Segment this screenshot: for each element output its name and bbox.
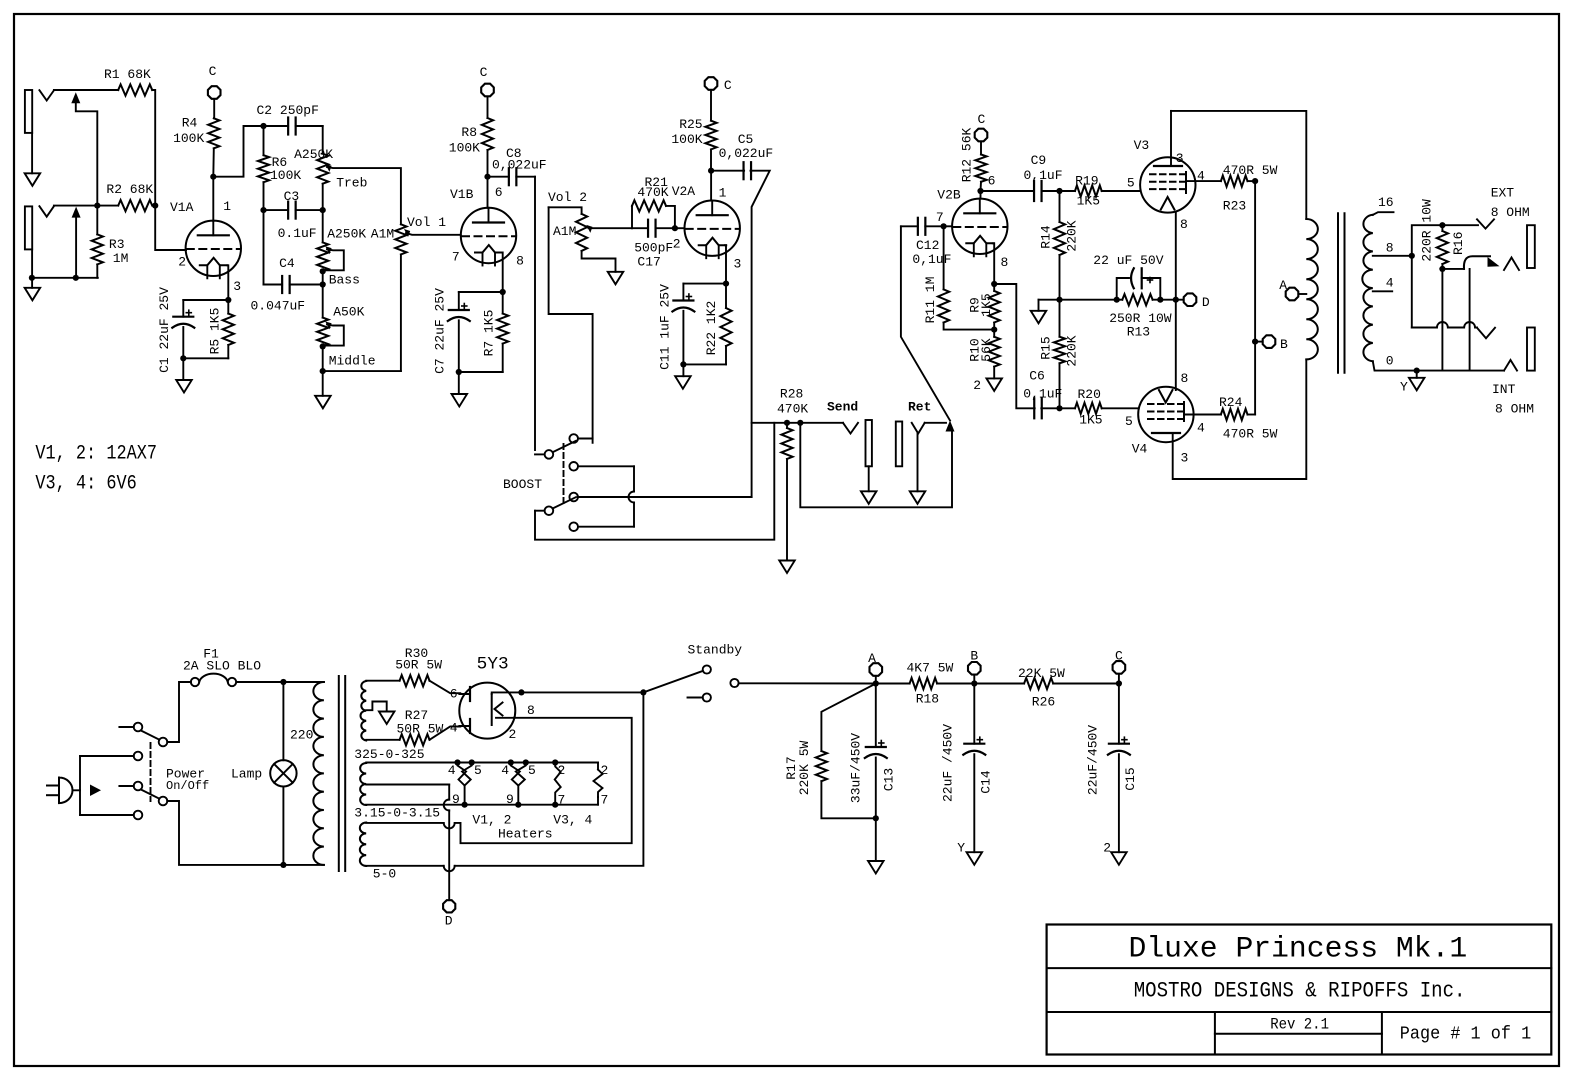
svg-text:8: 8 — [1181, 371, 1189, 386]
svg-text:2: 2 — [509, 727, 517, 742]
svg-text:C13: C13 — [882, 768, 897, 791]
svg-text:5: 5 — [1127, 176, 1135, 191]
svg-text:Heaters: Heaters — [498, 827, 553, 842]
svg-text:INT: INT — [1492, 382, 1516, 397]
svg-text:33uF/450V: 33uF/450V — [849, 733, 864, 803]
svg-text:Dluxe Princess Mk.1: Dluxe Princess Mk.1 — [1129, 933, 1468, 967]
svg-text:Y: Y — [1400, 380, 1408, 395]
svg-text:56K: 56K — [979, 338, 994, 362]
svg-text:470K: 470K — [637, 185, 668, 200]
svg-text:R14: R14 — [1039, 225, 1054, 249]
svg-text:R18: R18 — [916, 692, 939, 707]
svg-text:9: 9 — [506, 792, 514, 807]
svg-text:D: D — [1202, 295, 1210, 310]
svg-text:470R 5W: 470R 5W — [1223, 426, 1278, 441]
svg-text:0,022uF: 0,022uF — [492, 158, 547, 173]
svg-text:100K: 100K — [671, 132, 702, 147]
svg-text:Middle: Middle — [329, 354, 376, 369]
svg-text:C12: C12 — [916, 238, 939, 253]
svg-text:8: 8 — [1180, 217, 1188, 232]
svg-text:8 OHM: 8 OHM — [1495, 402, 1534, 417]
svg-text:3: 3 — [1181, 451, 1189, 466]
svg-text:50R 5W: 50R 5W — [397, 722, 444, 737]
svg-text:3.15-0-3.15: 3.15-0-3.15 — [354, 806, 440, 821]
svg-text:9: 9 — [452, 792, 460, 807]
svg-text:R22 1K2: R22 1K2 — [704, 301, 719, 356]
svg-text:C6: C6 — [1029, 369, 1045, 384]
svg-text:Vol 1: Vol 1 — [407, 215, 446, 230]
svg-text:C: C — [724, 78, 732, 93]
svg-text:V1A: V1A — [170, 200, 194, 215]
svg-text:A1M: A1M — [371, 227, 394, 242]
svg-text:220K 5W: 220K 5W — [797, 740, 812, 795]
svg-text:470K: 470K — [777, 402, 808, 417]
svg-text:R12 56K: R12 56K — [959, 127, 974, 182]
svg-text:V3, 4: V3, 4 — [553, 813, 592, 828]
svg-text:325-0-325: 325-0-325 — [354, 747, 424, 762]
svg-text:R11 1M: R11 1M — [923, 277, 938, 324]
svg-text:6: 6 — [495, 185, 503, 200]
svg-text:8: 8 — [1386, 241, 1394, 256]
svg-text:C14: C14 — [979, 770, 994, 794]
svg-text:C17: C17 — [637, 255, 660, 270]
svg-text:22 uF 50V: 22 uF 50V — [1093, 253, 1163, 268]
svg-text:8: 8 — [1001, 255, 1009, 270]
svg-text:2: 2 — [673, 236, 681, 251]
svg-text:A50K: A50K — [333, 305, 364, 320]
svg-text:R7 1K5: R7 1K5 — [482, 310, 497, 357]
svg-text:Page # 1 of 1: Page # 1 of 1 — [1400, 1025, 1531, 1045]
svg-text:0,1uF: 0,1uF — [912, 252, 951, 267]
svg-text:R20: R20 — [1078, 387, 1101, 402]
svg-text:100K: 100K — [449, 141, 480, 156]
svg-text:D: D — [445, 914, 453, 929]
svg-text:C: C — [480, 65, 488, 80]
svg-text:6: 6 — [450, 687, 458, 702]
svg-text:4: 4 — [448, 763, 456, 778]
svg-text:Treb: Treb — [336, 176, 367, 191]
svg-text:1M: 1M — [113, 251, 129, 266]
svg-text:R19: R19 — [1075, 174, 1098, 189]
svg-text:R26: R26 — [1032, 695, 1055, 710]
svg-text:220R 10W: 220R 10W — [1420, 199, 1435, 262]
svg-text:22uF/450V: 22uF/450V — [1085, 725, 1100, 795]
svg-text:C1 22uF 25V: C1 22uF 25V — [157, 287, 172, 373]
svg-text:A1M: A1M — [553, 224, 576, 239]
svg-text:0,1uF: 0,1uF — [1024, 168, 1063, 183]
svg-text:V3, 4: 6V6: V3, 4: 6V6 — [35, 473, 136, 496]
svg-text:220: 220 — [290, 728, 313, 743]
svg-text:B: B — [970, 649, 978, 664]
svg-text:1: 1 — [719, 185, 727, 200]
svg-text:2A SLO BLO: 2A SLO BLO — [183, 659, 261, 674]
svg-text:470R 5W: 470R 5W — [1223, 163, 1278, 178]
svg-text:2: 2 — [1103, 841, 1111, 856]
svg-text:0.1uF: 0.1uF — [278, 226, 317, 241]
svg-text:R3: R3 — [109, 237, 125, 252]
svg-text:A250K: A250K — [294, 147, 333, 162]
svg-text:4: 4 — [501, 763, 509, 778]
svg-text:1K5: 1K5 — [1079, 413, 1102, 428]
svg-text:220K: 220K — [1065, 335, 1080, 366]
svg-text:Send: Send — [827, 400, 858, 415]
svg-text:4: 4 — [450, 721, 458, 736]
svg-text:C15: C15 — [1123, 767, 1138, 790]
svg-text:5Y3: 5Y3 — [477, 655, 509, 675]
svg-text:EXT: EXT — [1491, 186, 1515, 201]
svg-text:0,022uF: 0,022uF — [719, 146, 774, 161]
svg-text:3: 3 — [1176, 151, 1184, 166]
svg-text:0: 0 — [1386, 354, 1394, 369]
svg-text:C7 22uF 25V: C7 22uF 25V — [433, 288, 448, 374]
svg-text:3: 3 — [233, 279, 241, 294]
svg-text:5: 5 — [474, 763, 482, 778]
svg-text:8 OHM: 8 OHM — [1491, 205, 1530, 220]
svg-text:4K7 5W: 4K7 5W — [907, 661, 954, 676]
svg-text:R15: R15 — [1039, 336, 1054, 359]
svg-text:R1 68K: R1 68K — [104, 67, 151, 82]
svg-text:100K: 100K — [173, 131, 204, 146]
svg-text:V1B: V1B — [450, 187, 474, 202]
svg-text:8: 8 — [516, 254, 524, 269]
svg-text:22uF /450V: 22uF /450V — [940, 724, 955, 802]
svg-text:Bass: Bass — [329, 273, 360, 288]
svg-text:C2 250pF: C2 250pF — [257, 103, 319, 118]
svg-text:50R 5W: 50R 5W — [395, 658, 442, 673]
svg-text:Vol 2: Vol 2 — [548, 190, 587, 205]
svg-text:4: 4 — [1197, 169, 1205, 184]
svg-text:8: 8 — [527, 703, 535, 718]
svg-text:3: 3 — [734, 257, 742, 272]
svg-text:R16: R16 — [1451, 232, 1466, 255]
svg-text:A: A — [868, 651, 876, 666]
svg-text:C4: C4 — [279, 256, 295, 271]
svg-text:R23: R23 — [1223, 199, 1246, 214]
svg-text:B: B — [1280, 337, 1288, 352]
svg-text:6: 6 — [988, 174, 996, 189]
svg-text:Lamp: Lamp — [231, 767, 262, 782]
svg-text:A: A — [1279, 278, 1287, 293]
svg-text:BOOST: BOOST — [503, 477, 542, 492]
svg-text:220K: 220K — [1065, 220, 1080, 251]
svg-text:C11 1uF 25V: C11 1uF 25V — [658, 284, 673, 370]
svg-text:V1, 2: V1, 2 — [472, 813, 511, 828]
svg-text:5-0: 5-0 — [373, 867, 396, 882]
svg-text:R5 1K5: R5 1K5 — [208, 308, 223, 355]
svg-text:4: 4 — [1386, 276, 1394, 291]
svg-text:V4: V4 — [1132, 441, 1148, 456]
svg-text:V2B: V2B — [937, 188, 961, 203]
svg-text:16: 16 — [1378, 195, 1394, 210]
svg-text:0.047uF: 0.047uF — [251, 299, 306, 314]
svg-text:5: 5 — [528, 763, 536, 778]
svg-text:7: 7 — [601, 793, 609, 808]
svg-text:22K 5W: 22K 5W — [1018, 666, 1065, 681]
svg-text:R28: R28 — [780, 387, 803, 402]
svg-text:C: C — [1115, 649, 1123, 664]
svg-text:Rev 2.1: Rev 2.1 — [1270, 1016, 1329, 1034]
svg-text:7: 7 — [558, 793, 566, 808]
svg-text:7: 7 — [452, 250, 460, 265]
svg-text:On/Off: On/Off — [166, 779, 209, 793]
svg-text:0,1uF: 0,1uF — [1023, 387, 1062, 402]
svg-text:2: 2 — [601, 763, 609, 778]
svg-text:V2A: V2A — [672, 184, 696, 199]
svg-text:5: 5 — [1125, 414, 1133, 429]
svg-text:MOSTRO DESIGNS & RIPOFFS Inc.: MOSTRO DESIGNS & RIPOFFS Inc. — [1134, 979, 1466, 1004]
svg-text:500pF: 500pF — [634, 241, 673, 256]
svg-text:1: 1 — [223, 199, 231, 214]
svg-text:4: 4 — [1197, 421, 1205, 436]
svg-text:R4: R4 — [182, 116, 198, 131]
svg-text:2: 2 — [558, 763, 566, 778]
svg-text:V3: V3 — [1134, 138, 1150, 153]
svg-text:C: C — [209, 64, 217, 79]
svg-text:C: C — [978, 112, 986, 127]
svg-text:R2 68K: R2 68K — [106, 182, 153, 197]
svg-text:R8: R8 — [461, 125, 477, 140]
svg-text:R25: R25 — [679, 117, 702, 132]
svg-text:A250K: A250K — [327, 227, 366, 242]
svg-text:R24: R24 — [1219, 395, 1243, 410]
svg-text:2: 2 — [973, 378, 981, 393]
svg-text:1K5: 1K5 — [1077, 194, 1100, 209]
svg-text:V1, 2: 12AX7: V1, 2: 12AX7 — [35, 443, 157, 466]
svg-text:Ret: Ret — [908, 400, 931, 415]
svg-text:Standby: Standby — [688, 643, 743, 658]
svg-text:7: 7 — [936, 210, 944, 225]
svg-text:100K: 100K — [270, 168, 301, 183]
svg-text:2: 2 — [178, 255, 186, 270]
svg-text:Y: Y — [957, 841, 965, 856]
svg-text:C3: C3 — [284, 189, 300, 204]
svg-text:1K5: 1K5 — [979, 293, 994, 316]
svg-text:C9: C9 — [1031, 153, 1047, 168]
svg-text:R13: R13 — [1127, 325, 1150, 340]
